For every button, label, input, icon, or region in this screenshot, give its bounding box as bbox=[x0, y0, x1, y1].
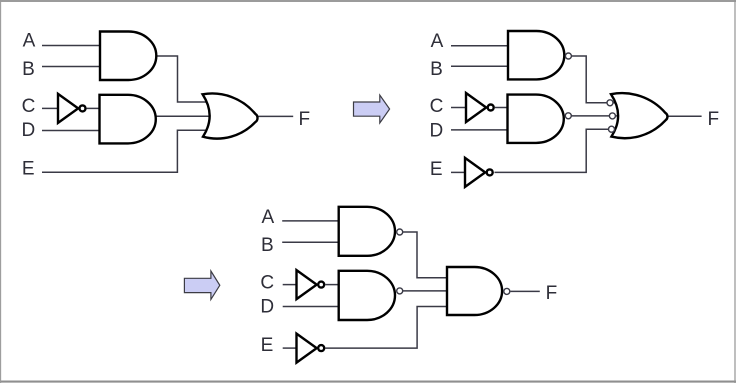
svg-text:E: E bbox=[261, 335, 274, 356]
wire OR output to F bbox=[667, 115, 702, 117]
wire input E through inverter to OR bottom input bbox=[451, 171, 465, 173]
svg-text:E: E bbox=[22, 159, 35, 180]
svg-text:C: C bbox=[260, 272, 274, 293]
wire inverter output to AND2 bbox=[87, 107, 101, 109]
wire inverter output to NAND2 bbox=[326, 284, 341, 286]
svg-text:A: A bbox=[23, 31, 36, 52]
bubble OR bottom input bbox=[609, 126, 615, 132]
bubble NAND1 output bbox=[565, 53, 571, 59]
bubble OR top input bbox=[607, 100, 613, 106]
arrow transform 1 bbox=[354, 95, 390, 123]
NAND gate G12 inputs C',D bbox=[339, 271, 395, 320]
NAND gate G5 inputs A,B bbox=[508, 31, 564, 79]
inverter G8 on E bbox=[465, 158, 485, 187]
svg-text:F: F bbox=[546, 283, 558, 304]
wire input C to inverter bbox=[451, 107, 467, 109]
inverter G11 on C bbox=[297, 270, 317, 299]
NAND gate G14 output F bbox=[447, 267, 502, 315]
NAND gate G7 inputs C',D bbox=[508, 95, 564, 143]
bubble NAND2 output bbox=[397, 288, 403, 294]
wire input B bbox=[451, 65, 509, 67]
wire input D bbox=[42, 130, 101, 132]
svg-text:D: D bbox=[430, 120, 444, 141]
wire input D bbox=[451, 129, 509, 131]
wire NAND2 output to OR middle input bbox=[572, 115, 621, 117]
bubble NAND1 output bbox=[397, 229, 403, 235]
svg-text:C: C bbox=[22, 96, 36, 117]
OR gate G9 with inverted inputs bbox=[611, 93, 667, 138]
wire NAND2 output to NAND3 middle input bbox=[403, 290, 448, 292]
wire input C to inverter bbox=[42, 107, 58, 109]
svg-text:B: B bbox=[261, 235, 274, 256]
wire input B bbox=[42, 66, 101, 68]
wire input B bbox=[282, 241, 340, 243]
svg-text:A: A bbox=[431, 31, 444, 52]
svg-text:C: C bbox=[430, 96, 444, 117]
wire input A bbox=[282, 220, 340, 222]
wire inverter E output to NAND3 bottom input bbox=[325, 307, 448, 349]
svg-text:F: F bbox=[298, 109, 310, 130]
wire input D bbox=[283, 306, 340, 308]
wire AND1 output to OR top input bbox=[156, 56, 208, 102]
wire NAND3 output to F bbox=[511, 290, 540, 292]
wire inverter E output bbox=[495, 129, 621, 172]
AND gate G1 inputs A,B bbox=[100, 32, 156, 81]
OR gate G4 bbox=[203, 93, 258, 138]
wire inverter output to NAND2 bbox=[495, 107, 509, 109]
wire input A bbox=[451, 45, 509, 47]
svg-text:A: A bbox=[261, 207, 274, 228]
NAND gate G10 inputs A,B bbox=[339, 207, 395, 256]
svg-text:D: D bbox=[22, 120, 36, 141]
wire OR output to F bbox=[256, 115, 293, 117]
bubble OR middle input bbox=[609, 113, 615, 119]
bubble NAND2 output bbox=[565, 113, 571, 119]
svg-text:F: F bbox=[707, 109, 719, 130]
wire input C to inverter bbox=[283, 284, 297, 286]
inverter G2 on C bbox=[58, 94, 78, 123]
svg-text:B: B bbox=[430, 59, 443, 80]
AND gate G3 inputs C',D bbox=[100, 95, 156, 144]
wire NAND1 output to NAND3 top input bbox=[403, 232, 448, 278]
wire input E to OR bottom input bbox=[42, 130, 208, 172]
inverter G13 on E bbox=[297, 334, 317, 363]
inverter G6 on C bbox=[466, 93, 486, 122]
wire NAND1 output to OR top input bbox=[572, 56, 621, 103]
arrow transform 2 bbox=[184, 271, 219, 299]
wire AND2 output to OR middle input bbox=[152, 115, 211, 117]
svg-text:D: D bbox=[260, 296, 274, 317]
wire input A bbox=[42, 45, 101, 47]
bubble NAND3 output bbox=[504, 288, 510, 294]
svg-text:E: E bbox=[430, 159, 443, 180]
svg-text:B: B bbox=[22, 59, 35, 80]
wire input E to inverter bbox=[283, 347, 296, 349]
